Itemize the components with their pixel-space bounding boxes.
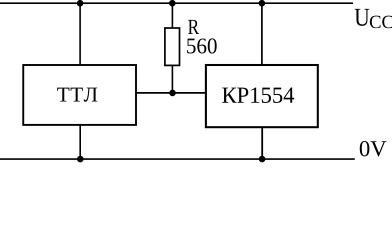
junction top rail at KR1554 xyxy=(259,0,266,7)
label TTL xyxy=(57,88,97,102)
wire 0V bottom rail xyxy=(0,158,355,160)
wire TTL Vcc drop xyxy=(79,3,81,65)
wire KR1554 Vcc drop xyxy=(261,3,263,65)
wire KR1554 ground drop xyxy=(261,127,263,159)
junction bottom rail at TTL xyxy=(77,156,84,163)
block TTL (box) xyxy=(23,65,136,125)
label Ucc (U) xyxy=(355,9,370,26)
label 560 xyxy=(187,38,217,53)
label Ucc (CC subscript) xyxy=(370,16,392,29)
wire resistor R top lead xyxy=(171,3,173,28)
resistor R body xyxy=(165,28,180,65)
junction top rail at TTL xyxy=(77,0,84,7)
wire TTL ground drop xyxy=(79,125,81,159)
wire Ucc top rail xyxy=(0,2,353,4)
label R xyxy=(188,20,199,34)
junction top rail at resistor xyxy=(169,0,176,7)
label KR1554 xyxy=(222,88,294,103)
junction bottom rail at KR1554 xyxy=(259,156,266,163)
label 0V xyxy=(360,141,387,156)
wire resistor R bottom lead xyxy=(171,65,173,93)
wire TTL output to KR1554 input xyxy=(136,92,206,94)
junction node resistor to TTL-KR1554 wire xyxy=(169,90,176,97)
block KR1554 (box) xyxy=(206,65,318,127)
